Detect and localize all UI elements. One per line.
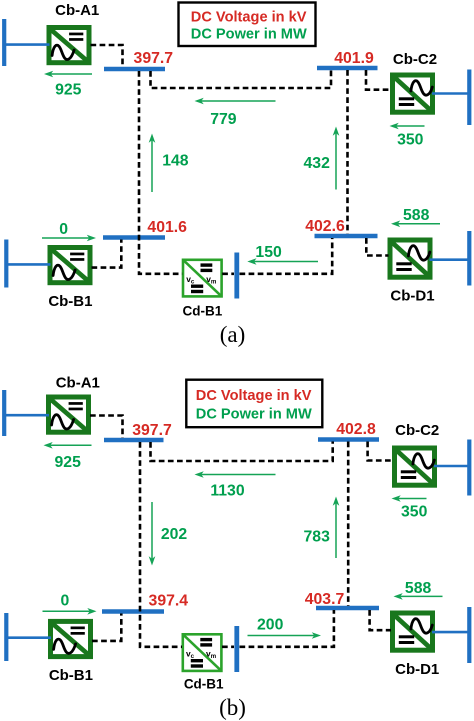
wire A1-bus1 (b) [90, 416, 123, 439]
wire bus2-bus4 right (b) [347, 442, 350, 607]
node bus4 (b) (DC bus bar) [316, 606, 379, 610]
svg-text:0: 0 [59, 221, 68, 238]
wire D1 ac (a) (AC line) [430, 258, 469, 261]
converter (a) Cb-D1 [390, 240, 430, 277]
node bus3 (a) (DC bus bar) [103, 235, 165, 239]
node bus2 (b) (DC bus bar) [318, 437, 379, 441]
node Cd bus (b) (AC bus bar) [234, 626, 239, 672]
arrow 432 (a) [335, 133, 337, 189]
arrow 202 (b) [151, 502, 153, 559]
svg-text:Cd-B1: Cd-B1 [184, 677, 224, 692]
svg-text:401.6: 401.6 [147, 219, 187, 236]
wire B1-bus3 (a) [92, 240, 122, 268]
svg-text:DC Power in MW: DC Power in MW [196, 406, 312, 422]
svg-text:200: 200 [257, 617, 284, 634]
node AC bus D (b) (AC bus bar) [467, 607, 471, 663]
wire A1-bus1 (a) [91, 45, 123, 67]
svg-text:DC Voltage in kV: DC Voltage in kV [191, 9, 307, 25]
node AC bus A (a) (AC bus bar) [2, 19, 6, 66]
svg-text:925: 925 [55, 454, 82, 471]
arrow 0 (b) [43, 610, 90, 612]
wire Cdbus-bus4 (a) [240, 238, 333, 274]
svg-text:350: 350 [397, 132, 424, 149]
svg-text:783: 783 [304, 529, 331, 546]
svg-text:Cb-B1: Cb-B1 [49, 667, 93, 684]
svg-text:397.7: 397.7 [134, 50, 174, 67]
wire bus1-bus2 top link (b) [151, 442, 333, 462]
node bus2 (a) (DC bus bar) [317, 66, 378, 70]
svg-text:402.6: 402.6 [305, 218, 345, 235]
svg-text:150: 150 [255, 244, 282, 261]
arrow 350 (a) [396, 125, 424, 127]
svg-text:Cb-D1: Cb-D1 [395, 661, 439, 678]
svg-text:925: 925 [55, 82, 82, 99]
wire bus4-D1 (b) [370, 610, 391, 630]
svg-text:350: 350 [401, 503, 428, 520]
svg-text:148: 148 [162, 152, 189, 169]
svg-text:397.7: 397.7 [132, 422, 172, 439]
wire bus2-C2 (a) [366, 70, 391, 90]
converter (a) Cb-A1 [49, 28, 89, 63]
svg-text:588: 588 [405, 580, 432, 597]
wire bus1-bus3-CdB1 left (b) [140, 442, 182, 647]
svg-text:(a): (a) [220, 322, 246, 347]
wire bus2-C2 (b) [368, 442, 393, 461]
svg-text:Cb-B1: Cb-B1 [48, 293, 92, 310]
arrow 0 (a) [42, 237, 89, 239]
node AC bus A (b) (AC bus bar) [2, 390, 6, 436]
wire B1 ac (a) (AC line) [6, 263, 51, 266]
wire C2 ac (b) (AC line) [434, 465, 468, 468]
arrow 925 (a) [51, 73, 92, 75]
svg-text:403.7: 403.7 [305, 591, 345, 608]
svg-text:Cb-D1: Cb-D1 [390, 288, 434, 305]
arrow 148 (a) [151, 140, 153, 192]
svg-text:1130: 1130 [210, 483, 244, 500]
node bus1 (a) (DC bus bar) [104, 67, 165, 71]
node AC bus B (a) (AC bus bar) [4, 240, 8, 288]
wire B1-bus3 (b) [92, 614, 121, 641]
arrow 779 (a) [201, 100, 275, 102]
node AC bus B (b) (AC bus bar) [4, 613, 8, 661]
arrow 588 (b) [400, 595, 442, 597]
svg-text:0: 0 [61, 592, 70, 609]
legend box (b) [186, 380, 322, 428]
converter (a) Cb-C2 [393, 75, 433, 112]
node bus4 (a) (DC bus bar) [315, 234, 378, 238]
svg-text:588: 588 [403, 207, 430, 224]
node bus3 (b) (DC bus bar) [102, 609, 164, 613]
svg-text:397.4: 397.4 [149, 592, 189, 609]
arrow 588 (a) [398, 223, 440, 225]
node AC bus C (a) (AC bus bar) [467, 70, 471, 126]
svg-text:Cb-A1: Cb-A1 [55, 2, 99, 19]
wire bus1-bus3-CdB1 left (a) [139, 71, 182, 274]
arrow 350 (b) [398, 498, 426, 500]
node bus1 (b) (DC bus bar) [104, 438, 164, 442]
svg-text:Cb-A1: Cb-A1 [56, 374, 100, 391]
svg-text:Cb-C2: Cb-C2 [395, 422, 439, 439]
svg-text:DC Voltage in kV: DC Voltage in kV [196, 388, 312, 404]
converter (b) Cd-B1 (DC/DC) [183, 634, 222, 671]
arrow 1130 (b) [201, 474, 275, 476]
svg-text:402.8: 402.8 [336, 421, 376, 438]
arrow 200 (b) [248, 635, 315, 637]
arrow 150 (a) [254, 261, 318, 263]
svg-text:779: 779 [210, 111, 237, 128]
converter (b) Cb-C2 [395, 448, 435, 485]
wire bus4-D1 (a) [366, 238, 388, 256]
wire A1 ac (b) (AC line) [6, 414, 49, 417]
converter (a) Cb-B1 [50, 248, 90, 283]
wire bus2-bus4 right (a) [346, 70, 349, 234]
wire A1 ac (a) (AC line) [6, 43, 50, 46]
svg-text:202: 202 [161, 526, 188, 543]
arrow 925 (b) [50, 444, 91, 446]
node Cd bus (a) (AC bus bar) [234, 253, 239, 299]
svg-text:401.9: 401.9 [334, 50, 374, 67]
legend box (a) [179, 3, 316, 47]
wire CdB1-Cdbus (a) [222, 272, 234, 275]
svg-text:Cb-C2: Cb-C2 [393, 51, 437, 68]
wire B1 ac (b) (AC line) [6, 636, 51, 639]
svg-text:Cd-B1: Cd-B1 [183, 304, 223, 319]
converter (b) Cb-B1 [51, 621, 91, 656]
node AC bus C (b) (AC bus bar) [467, 440, 471, 496]
node AC bus D (a) (AC bus bar) [467, 231, 471, 286]
wire bus1-bus2 top link (a) [151, 70, 332, 88]
wire D1 ac (b) (AC line) [432, 631, 468, 634]
converter (b) Cb-D1 [393, 613, 433, 650]
wire C2 ac (a) (AC line) [432, 92, 468, 95]
wire Cdbus-bus4 (b) [240, 610, 334, 647]
converter (a) Cd-B1 (DC/DC) [183, 260, 222, 297]
svg-text:DC Power in MW: DC Power in MW [191, 27, 307, 43]
svg-text:432: 432 [304, 155, 331, 172]
svg-text:(b): (b) [219, 695, 246, 720]
wire CdB1-Cdbus (b) [222, 645, 234, 648]
arrow 783 (b) [335, 503, 337, 558]
converter (b) Cb-A1 [49, 397, 89, 432]
